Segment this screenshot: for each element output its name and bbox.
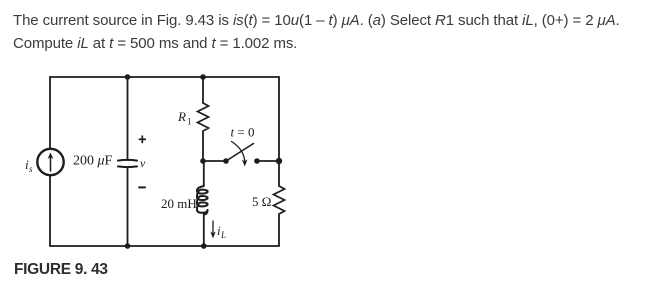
svg-text:s: s — [29, 164, 33, 174]
node top capacitor — [125, 74, 131, 80]
wire capacitor branch upper — [127, 77, 129, 160]
wire left rail lower — [49, 176, 51, 247]
wire node to inductor — [203, 161, 205, 186]
svg-text:200 μF: 200 μF — [73, 154, 113, 169]
wire R1 to node — [202, 133, 204, 161]
wire top — [50, 76, 279, 78]
svg-text:t = 0: t = 0 — [231, 125, 255, 140]
switch motion arrow — [232, 142, 248, 167]
svg-text:L: L — [220, 230, 226, 240]
switch t=0 blade — [226, 144, 254, 162]
arrow iL — [210, 221, 215, 239]
capacitor 200uF — [118, 160, 137, 167]
label plus — [139, 136, 146, 144]
label 20mH — [161, 196, 197, 211]
svg-text:1: 1 — [187, 117, 192, 127]
switch left contact — [223, 158, 229, 164]
svg-text:5 Ω: 5 Ω — [252, 194, 271, 209]
label R1 — [177, 109, 192, 127]
wire right rail lower — [278, 216, 280, 246]
wire switch right contact to rail — [257, 160, 279, 162]
node bottom inductor — [201, 243, 207, 249]
wire node to switch left contact — [203, 160, 226, 162]
node top R1 — [200, 74, 206, 80]
label minus — [138, 186, 146, 188]
label 5 ohm — [252, 194, 271, 209]
wire left rail upper — [49, 77, 51, 149]
label v — [140, 156, 146, 170]
node right rail junction — [276, 158, 282, 164]
wire right rail upper — [278, 77, 280, 186]
wire inductor to bottom — [203, 215, 205, 247]
inductor 20mH — [197, 186, 208, 215]
node middle junction — [200, 158, 206, 164]
svg-text:20 mH: 20 mH — [161, 196, 197, 211]
wire capacitor branch lower — [127, 168, 129, 247]
resistor R1 — [198, 103, 209, 133]
current source is — [37, 149, 63, 175]
resistor 5 ohm — [274, 186, 285, 216]
node bottom capacitor — [125, 243, 131, 249]
label t=0 — [231, 125, 255, 140]
label 200uF — [73, 154, 113, 169]
svg-text:v: v — [140, 156, 146, 170]
switch right contact — [254, 158, 260, 164]
label iL — [217, 223, 226, 240]
wire bottom — [50, 245, 279, 247]
label is — [25, 157, 33, 174]
wire middle branch upper — [202, 77, 204, 103]
svg-text:R: R — [177, 109, 186, 124]
